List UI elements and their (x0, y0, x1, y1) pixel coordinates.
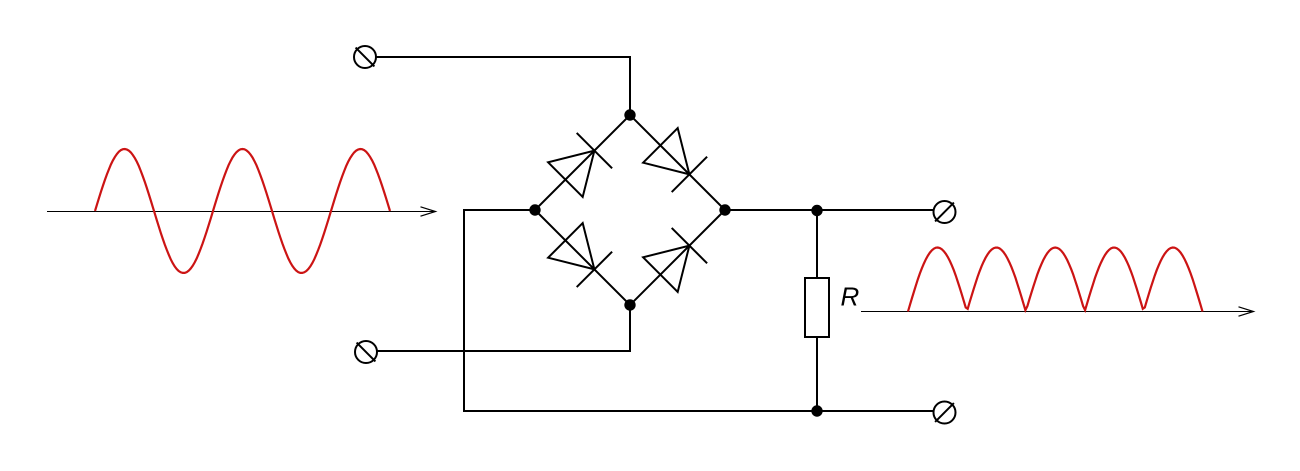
input sine wave (95, 149, 390, 273)
terminal OUT1 (top-right) (934, 201, 956, 223)
junction at resistor top (811, 205, 822, 216)
wire IN1 to top node (376, 57, 630, 115)
diode D3 (left to bottom) (548, 223, 612, 287)
node bottom junction (624, 299, 635, 310)
diode D2 (top to right) (643, 128, 707, 192)
terminal OUT2 (bottom-right) (934, 402, 956, 424)
wire left node to bottom rail (464, 210, 934, 411)
terminal IN1 (top-left) (354, 46, 376, 68)
wire resistor bottom (816, 337, 818, 411)
svg-text:R: R (841, 282, 860, 312)
output full-wave rectified wave (908, 248, 1203, 312)
input AC waveform axis (47, 207, 436, 216)
wire resistor top (816, 210, 818, 278)
node right junction (719, 204, 730, 215)
resistor R body (805, 278, 829, 337)
node left junction (529, 204, 540, 215)
output rectified waveform axis (861, 307, 1254, 316)
diode D1 (left to top) (548, 133, 612, 197)
diode D4 (bottom to right) (643, 228, 707, 292)
terminal IN2 (bottom-left) (355, 341, 377, 363)
wire right node to terminal OUT1 (725, 209, 934, 211)
wire IN2 to bottom node (377, 305, 630, 351)
node top junction (624, 109, 635, 120)
junction at resistor bottom (811, 405, 822, 416)
bridge diamond edges (535, 115, 725, 305)
